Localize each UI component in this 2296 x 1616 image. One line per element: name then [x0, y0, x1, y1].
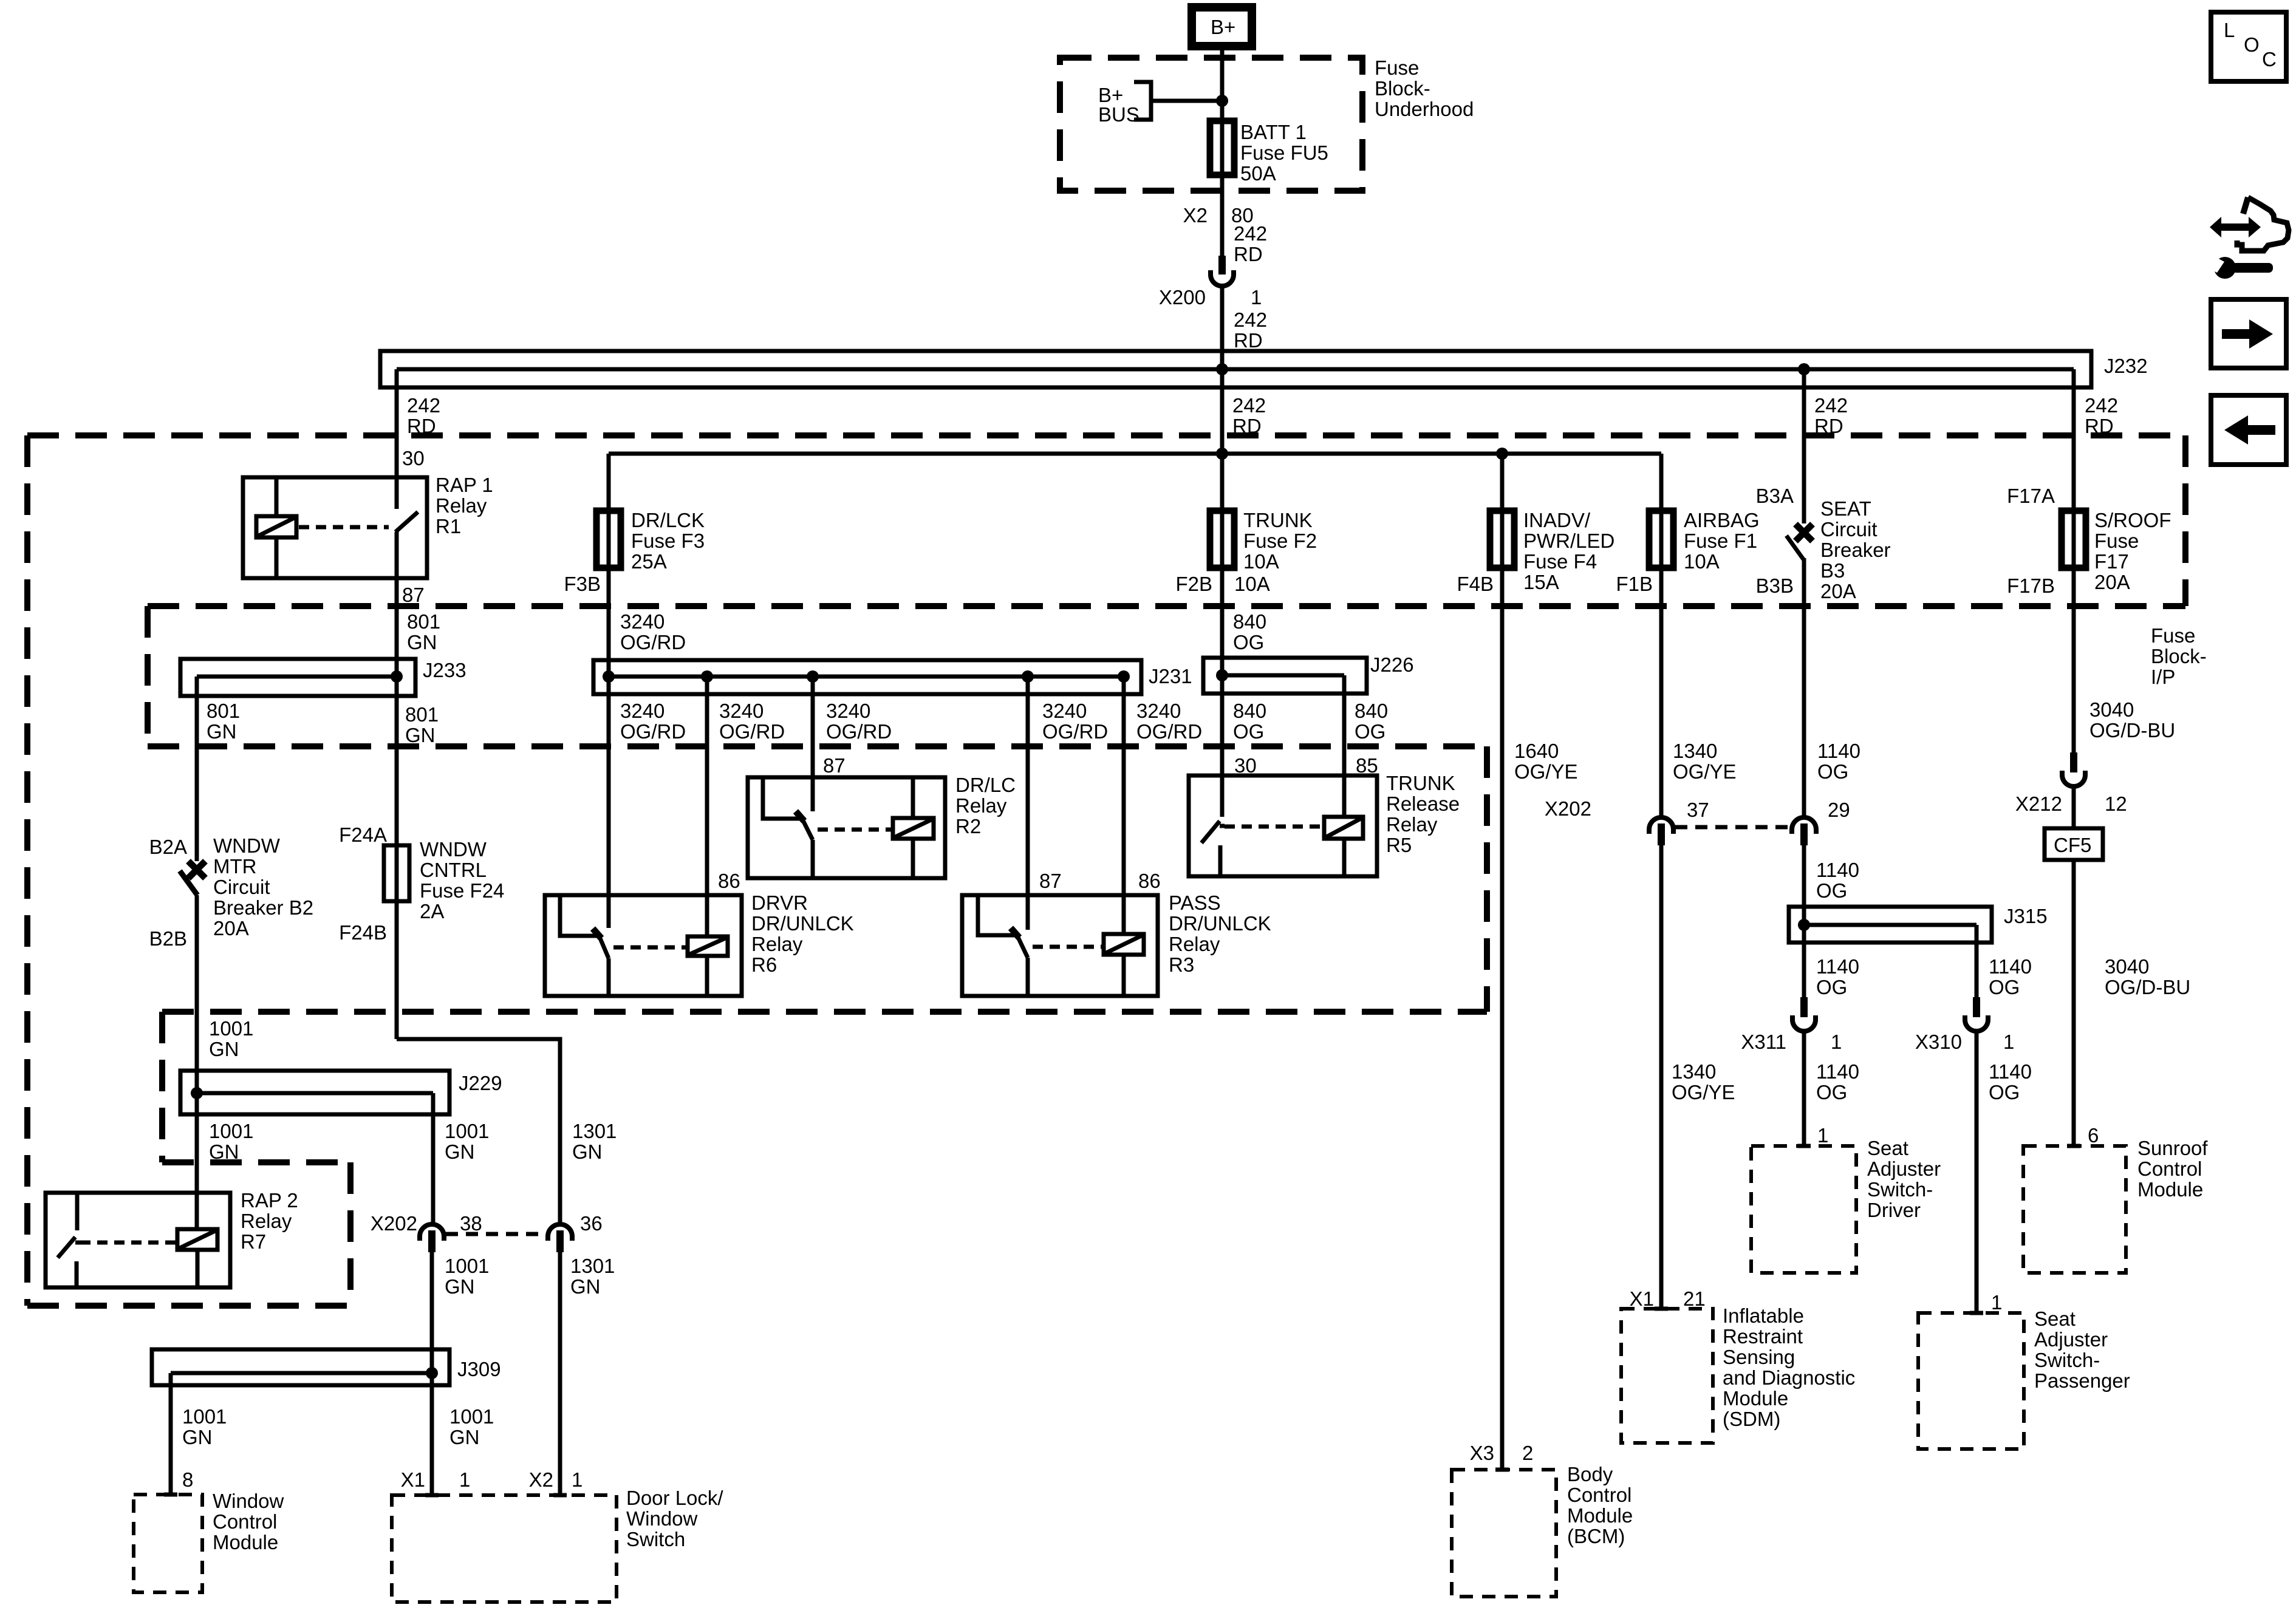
svg-text:PWR/LED: PWR/LED — [1523, 530, 1614, 552]
label INADV/PWR/LED Fuse F4 15A — [1523, 509, 1614, 593]
svg-text:Module: Module — [2137, 1178, 2203, 1201]
wire feeder to F3 — [607, 454, 611, 511]
terminal tick SDM — [1655, 1307, 1668, 1311]
svg-text:25A: 25A — [631, 550, 667, 573]
wire F17 to X212 — [2072, 511, 2076, 752]
svg-text:F17: F17 — [2094, 550, 2129, 573]
label X3 pin 2 BCM — [1470, 1442, 1534, 1464]
terminal tick seat passenger — [1970, 1311, 1983, 1315]
label 242 RD center column — [1232, 394, 1266, 437]
svg-text:3240: 3240 — [1042, 700, 1087, 722]
label 801 GN above J233 — [407, 610, 440, 653]
relay R2 DR/LC box — [748, 777, 945, 878]
label WNDW MTR Circuit Breaker B2 20A — [213, 834, 313, 939]
label 1001 GN below J229 left — [209, 1120, 253, 1163]
relay R6 switch — [560, 895, 609, 996]
wire X202 29 to J315 and X311 — [1802, 845, 1806, 997]
svg-text:Fuse F2: Fuse F2 — [1243, 530, 1317, 552]
wire F1 to X202 pin 37 — [1659, 511, 1664, 817]
svg-text:X310: X310 — [1915, 1031, 1962, 1053]
wire bus to B3A breaker — [1802, 369, 1806, 523]
label SEAT Circuit Breaker B3 20A — [1820, 497, 1891, 602]
svg-text:Block-: Block- — [2151, 645, 2207, 667]
svg-text:86: 86 — [1138, 870, 1161, 892]
label 1140 OG above J315 — [1816, 859, 1859, 902]
svg-text:J232: J232 — [2104, 355, 2148, 377]
label 3040 OG/D-BU — [2089, 698, 2175, 742]
svg-text:GN: GN — [445, 1140, 475, 1163]
svg-text:X3: X3 — [1470, 1442, 1494, 1464]
splice pack J309 — [152, 1349, 501, 1385]
wire X202 38 to J309 and door switch — [430, 1252, 434, 1495]
fuse FU5 BATT 1 50A — [1210, 121, 1234, 175]
wire bus to F17A — [2072, 369, 2076, 511]
svg-text:Release: Release — [1386, 793, 1460, 815]
wire FU5 to X200 — [1220, 175, 1225, 256]
svg-text:21: 21 — [1683, 1287, 1706, 1310]
icon LOC box — [2211, 12, 2286, 81]
svg-text:10A: 10A — [1243, 550, 1279, 573]
bus J232 inner conductor — [397, 367, 2074, 372]
svg-text:R6: R6 — [751, 953, 777, 976]
B+ terminal — [1192, 7, 1252, 46]
svg-text:OG: OG — [1355, 720, 1385, 743]
svg-text:801: 801 — [405, 703, 439, 726]
svg-text:OG: OG — [1816, 1081, 1847, 1103]
label DRVR DR/UNLCK Relay R6 — [751, 892, 854, 976]
svg-text:OG/RD: OG/RD — [826, 720, 892, 743]
connector X310 pin 1 — [1915, 997, 2014, 1053]
label S/ROOF Fuse F17 20A — [2094, 509, 2171, 593]
label 840 OG col1 — [1233, 700, 1266, 743]
wire B3 to X202 pin 29 — [1802, 558, 1806, 817]
wire feeder to F4 — [1500, 454, 1505, 511]
svg-text:(SDM): (SDM) — [1723, 1408, 1780, 1430]
svg-text:F1B: F1B — [1616, 573, 1653, 595]
svg-text:1001: 1001 — [209, 1120, 253, 1142]
svg-text:840: 840 — [1233, 610, 1266, 633]
svg-text:C: C — [2262, 48, 2277, 70]
terminal tick window control module — [164, 1493, 177, 1497]
svg-text:GN: GN — [449, 1426, 480, 1448]
svg-text:I/P: I/P — [2151, 666, 2175, 688]
svg-text:15A: 15A — [1523, 571, 1559, 593]
svg-text:242: 242 — [1234, 309, 1267, 331]
svg-text:20A: 20A — [2094, 571, 2130, 593]
svg-text:Adjuster: Adjuster — [2034, 1328, 2108, 1351]
svg-text:OG/RD: OG/RD — [719, 720, 785, 743]
fuse F1 AIRBAG — [1649, 511, 1673, 568]
label 840 OG above J226 — [1233, 610, 1266, 653]
svg-text:Breaker: Breaker — [1820, 539, 1891, 561]
fuse block underhood dashed box — [1060, 58, 1362, 191]
wire feeder to F1 — [1659, 454, 1664, 511]
svg-text:AIRBAG: AIRBAG — [1684, 509, 1760, 531]
svg-text:GN: GN — [209, 1038, 239, 1060]
svg-text:OG/RD: OG/RD — [1042, 720, 1108, 743]
svg-text:WNDW: WNDW — [420, 838, 487, 861]
svg-text:Adjuster: Adjuster — [1867, 1157, 1941, 1180]
label TRUNK Fuse F2 10A — [1243, 509, 1317, 573]
terminal tick seat driver — [1797, 1144, 1811, 1148]
B+ BUS terminal — [1098, 82, 1151, 126]
svg-text:S/ROOF: S/ROOF — [2094, 509, 2171, 531]
wire J233 left branch 801 GN — [195, 677, 199, 861]
svg-text:6: 6 — [2088, 1124, 2099, 1147]
relay R3 PASS box — [962, 895, 1158, 996]
svg-text:X202: X202 — [371, 1212, 417, 1235]
svg-text:Fuse F3: Fuse F3 — [631, 530, 705, 552]
svg-text:X212: X212 — [2015, 793, 2062, 815]
relay R1 switch — [395, 477, 418, 578]
relay R7 RAP 2 box — [46, 1193, 230, 1287]
svg-text:X311: X311 — [1741, 1031, 1786, 1053]
inline fuse CF5 — [2045, 828, 2103, 860]
svg-text:RAP 2: RAP 2 — [241, 1189, 298, 1212]
label 3240 OG/RD col2 — [719, 700, 785, 743]
wire F24B to X202 pin 36 — [397, 1039, 560, 1224]
label 1001 GN below X202 38 — [445, 1255, 489, 1298]
svg-text:Relay: Relay — [751, 933, 803, 955]
dashed boundary fuse block IP left — [145, 606, 151, 746]
relay R6 actuation dashed link — [613, 946, 688, 950]
svg-text:PASS: PASS — [1169, 892, 1221, 914]
dashed boundary right edge — [2182, 435, 2188, 606]
relay R2 switch — [763, 777, 813, 878]
label 242 RD seat column — [1814, 394, 1848, 437]
label Window Control Module — [213, 1490, 284, 1553]
svg-text:J233: J233 — [423, 659, 466, 681]
label Door Lock Window Switch — [626, 1487, 723, 1550]
svg-text:X2: X2 — [1183, 204, 1208, 227]
label Fuse Block-I/P — [2151, 624, 2207, 688]
terminal tick door switch X2 — [553, 1493, 567, 1498]
wire F4 to BCM — [1500, 511, 1505, 1470]
connector X200 pin 1 — [1159, 256, 1262, 309]
node bus to B3 column — [1798, 363, 1810, 375]
svg-text:Door Lock/: Door Lock/ — [626, 1487, 723, 1509]
svg-text:Fuse: Fuse — [2151, 624, 2195, 647]
wire J229 right branch to X202 pin 38 — [431, 1093, 436, 1224]
svg-text:1: 1 — [1831, 1031, 1842, 1053]
svg-text:10A: 10A — [1684, 550, 1720, 573]
svg-text:BATT 1: BATT 1 — [1240, 121, 1307, 143]
svg-text:38: 38 — [460, 1212, 482, 1235]
label BATT 1 Fuse FU5 50A — [1240, 121, 1328, 185]
wire X212 to CF5 — [2072, 786, 2076, 828]
svg-text:OG/RD: OG/RD — [620, 720, 686, 743]
svg-text:1: 1 — [1251, 286, 1262, 309]
svg-text:O: O — [2244, 33, 2260, 56]
svg-text:Driver: Driver — [1867, 1199, 1921, 1221]
svg-text:GN: GN — [207, 720, 237, 743]
svg-text:Sensing: Sensing — [1723, 1346, 1795, 1368]
label 1001 GN below J309 right — [449, 1405, 494, 1448]
module box Seat Adjuster Switch-Passenger — [1918, 1313, 2024, 1449]
svg-text:Restraint: Restraint — [1723, 1325, 1803, 1348]
svg-text:242: 242 — [2085, 394, 2118, 417]
svg-text:3040: 3040 — [2105, 955, 2149, 978]
connector X202 pin 37 — [1545, 797, 1709, 845]
label DR/LCK Fuse F3 25A — [631, 509, 705, 573]
wire F2 to J226 and R5 — [1220, 511, 1225, 817]
svg-text:OG/D-BU: OG/D-BU — [2089, 719, 2175, 742]
svg-text:1140: 1140 — [1816, 859, 1859, 881]
svg-text:GN: GN — [405, 724, 436, 746]
svg-text:Relay: Relay — [436, 494, 487, 517]
label 840 OG col2 — [1355, 700, 1388, 743]
label DR/LC Relay R2 — [955, 774, 1016, 837]
label 1301 GN below X202 36 — [570, 1255, 615, 1298]
label AIRBAG Fuse F1 10A — [1684, 509, 1760, 573]
relay R6 coil — [688, 936, 728, 996]
relay R3 coil — [1104, 934, 1144, 996]
dashed boundary relay row bottom — [162, 1009, 1487, 1015]
wire bus to RAP1 pin 30 — [395, 369, 399, 477]
svg-text:10A: 10A — [1234, 573, 1270, 595]
svg-text:87: 87 — [402, 584, 425, 606]
svg-text:50A: 50A — [1240, 162, 1276, 185]
label 1140 OG below J315 right — [1989, 955, 2032, 998]
svg-text:WNDW: WNDW — [213, 834, 281, 857]
module box BCM — [1452, 1470, 1556, 1597]
label 3240 OG/RD col1 — [620, 700, 686, 743]
label Fuse Block-Underhood — [1375, 56, 1474, 120]
svg-text:OG: OG — [1233, 631, 1264, 653]
svg-text:Sunroof: Sunroof — [2137, 1137, 2208, 1159]
svg-text:OG: OG — [1817, 760, 1848, 783]
icon diagnostic connector arrow — [2210, 197, 2289, 251]
module box SDM — [1621, 1309, 1713, 1443]
label 3040 OG/D-BU lower — [2105, 955, 2190, 998]
dashed boundary inner left vertical — [159, 1012, 165, 1162]
label 1340 OG/YE — [1673, 740, 1737, 783]
svg-text:TRUNK: TRUNK — [1243, 509, 1313, 531]
svg-text:2: 2 — [1522, 1442, 1533, 1464]
svg-text:J231: J231 — [1149, 665, 1192, 687]
module box Seat Adjuster Switch-Driver — [1751, 1146, 1856, 1273]
dashed connector line X202 37-29 — [1675, 825, 1789, 830]
svg-text:B2B: B2B — [149, 927, 187, 950]
svg-text:2A: 2A — [420, 900, 444, 922]
relay R7 coil — [177, 1229, 217, 1287]
svg-text:R1: R1 — [436, 515, 461, 537]
relay R3 actuation dashed link — [1033, 945, 1104, 949]
dashed connector line X202 38-36 — [446, 1232, 545, 1236]
label 801 GN right below J233 — [405, 703, 439, 746]
svg-text:1001: 1001 — [209, 1017, 253, 1040]
svg-text:OG: OG — [1816, 879, 1847, 902]
svg-text:Fuse F1: Fuse F1 — [1684, 530, 1757, 552]
svg-text:242: 242 — [1814, 394, 1848, 417]
label 1140 OG — [1817, 740, 1860, 783]
relay R5 actuation dashed link — [1225, 825, 1324, 829]
label 1140 OG below J315 left — [1816, 955, 1859, 998]
label 3240 OG/RD col4 — [1042, 700, 1108, 743]
svg-text:F17B: F17B — [2007, 574, 2055, 597]
svg-text:F4B: F4B — [1457, 573, 1494, 595]
svg-text:X2: X2 — [529, 1468, 553, 1491]
svg-text:Fuse F24: Fuse F24 — [420, 879, 504, 902]
svg-text:L: L — [2224, 19, 2235, 41]
relay R5 coil — [1324, 817, 1363, 876]
wire X311 to seat driver switch — [1802, 1031, 1806, 1146]
svg-text:R2: R2 — [955, 815, 981, 837]
label 801 GN left below J233 — [207, 700, 240, 743]
splice pack J226 — [1203, 653, 1414, 694]
fuse F3 DR/LCK — [596, 511, 621, 568]
dashed boundary fuse block IP top — [148, 603, 2185, 609]
icon wrench — [2204, 253, 2273, 279]
relay R7 actuation dashed link — [80, 1241, 177, 1245]
splice pack J229 — [180, 1071, 502, 1114]
svg-text:Block-: Block- — [1375, 77, 1430, 100]
node B+ bus junction — [1216, 95, 1228, 107]
svg-text:20A: 20A — [213, 917, 249, 939]
icon arrow left box — [2211, 395, 2286, 465]
breaker B2 WNDW MTR — [180, 861, 205, 895]
label 1140 OG passenger col — [1989, 1060, 2032, 1103]
bus J232 outer rectangle — [380, 351, 2091, 387]
label PASS DR/UNLCK Relay R3 — [1169, 892, 1271, 976]
svg-text:840: 840 — [1355, 700, 1388, 722]
svg-text:GN: GN — [182, 1426, 213, 1448]
svg-text:F3B: F3B — [564, 573, 601, 595]
svg-text:242: 242 — [1234, 222, 1267, 245]
svg-text:GN: GN — [407, 631, 437, 653]
svg-text:1140: 1140 — [1989, 1060, 2032, 1083]
svg-text:(BCM): (BCM) — [1567, 1525, 1625, 1547]
svg-text:36: 36 — [580, 1212, 603, 1235]
label 1001 GN below J309 left — [182, 1405, 227, 1448]
dashed boundary left edge — [24, 435, 30, 1306]
svg-text:B+: B+ — [1211, 16, 1235, 38]
svg-text:Module: Module — [1567, 1504, 1633, 1527]
svg-text:1001: 1001 — [445, 1255, 489, 1277]
label 3240 OG/RD col3 — [826, 700, 892, 743]
svg-text:3240: 3240 — [719, 700, 764, 722]
svg-text:242: 242 — [1232, 394, 1266, 417]
fuse F24 WNDW CNTRL — [384, 845, 409, 901]
svg-text:37: 37 — [1687, 799, 1709, 821]
splice pack J231 — [593, 660, 1192, 694]
label X1 pin 21 SDM — [1630, 1287, 1706, 1310]
svg-text:DR/LCK: DR/LCK — [631, 509, 705, 531]
wire B+ BUS to main — [1151, 99, 1222, 103]
svg-text:Passenger: Passenger — [2034, 1369, 2130, 1392]
label 1640 OG/YE — [1514, 740, 1578, 783]
svg-text:242: 242 — [407, 394, 440, 417]
svg-text:1640: 1640 — [1514, 740, 1559, 762]
svg-text:1: 1 — [459, 1468, 470, 1491]
label X2 pin 80 — [1183, 204, 1254, 227]
svg-text:TRUNK: TRUNK — [1386, 772, 1455, 794]
svg-text:3240: 3240 — [826, 700, 870, 722]
label 1001 GN above J229 — [209, 1017, 253, 1060]
svg-text:Module: Module — [1723, 1387, 1788, 1410]
svg-text:30: 30 — [1234, 754, 1257, 777]
svg-text:F24A: F24A — [339, 823, 387, 846]
svg-text:1140: 1140 — [1816, 955, 1859, 978]
relay R1 RAP 1 box — [243, 477, 427, 578]
svg-text:1001: 1001 — [449, 1405, 494, 1428]
svg-text:Circuit: Circuit — [213, 876, 270, 898]
svg-text:Relay: Relay — [955, 794, 1007, 817]
svg-text:Seat: Seat — [1867, 1137, 1908, 1159]
relay R2 coil — [893, 777, 934, 878]
svg-text:and Diagnostic: and Diagnostic — [1723, 1366, 1855, 1389]
label WNDW CNTRL Fuse F24 2A — [420, 838, 504, 922]
svg-text:801: 801 — [207, 700, 240, 722]
svg-text:1140: 1140 — [1816, 1060, 1859, 1083]
svg-text:Switch-: Switch- — [1867, 1178, 1933, 1201]
dashed boundary relay row right vertical — [1484, 746, 1490, 1012]
svg-text:86: 86 — [718, 870, 740, 892]
wire J231 to R6 coil — [705, 677, 709, 936]
label Seat Adjuster Switch-Passenger — [2034, 1307, 2130, 1392]
relay R5 switch — [1201, 821, 1225, 876]
svg-text:INADV/: INADV/ — [1523, 509, 1591, 531]
svg-text:BUS: BUS — [1098, 103, 1139, 126]
svg-text:Relay: Relay — [241, 1210, 292, 1232]
relay R2 actuation dashed link — [818, 828, 893, 832]
wire J226 to R5 coil pin 85 — [1342, 675, 1347, 817]
svg-text:840: 840 — [1233, 700, 1266, 722]
relay R3 switch — [978, 895, 1028, 996]
svg-text:87: 87 — [1039, 870, 1062, 892]
svg-text:85: 85 — [1356, 754, 1378, 777]
svg-text:1001: 1001 — [182, 1405, 227, 1428]
relay R1 actuation dashed link — [299, 525, 389, 530]
terminal tick BCM — [1495, 1468, 1509, 1472]
svg-text:1: 1 — [572, 1468, 583, 1491]
svg-text:Fuse: Fuse — [1375, 56, 1419, 79]
svg-text:Relay: Relay — [1386, 813, 1438, 836]
label 242 RD RAP column — [407, 394, 440, 437]
svg-text:1140: 1140 — [1989, 955, 2032, 978]
svg-text:X202: X202 — [1545, 797, 1591, 820]
svg-text:GN: GN — [570, 1275, 601, 1298]
svg-text:1340: 1340 — [1672, 1060, 1716, 1083]
svg-text:R7: R7 — [241, 1230, 266, 1253]
connector X202 pin 29 — [1792, 799, 1850, 845]
wire J231 to R3 coil — [1122, 677, 1126, 934]
svg-text:OG/YE: OG/YE — [1673, 760, 1737, 783]
label 1001 GN below J229 right — [445, 1120, 489, 1163]
svg-text:30: 30 — [402, 447, 425, 469]
svg-text:F2B: F2B — [1175, 573, 1212, 595]
svg-text:Control: Control — [1567, 1484, 1631, 1506]
wire B+ to fuse FU5 — [1220, 49, 1225, 175]
svg-text:GN: GN — [209, 1140, 239, 1163]
svg-text:Switch-: Switch- — [2034, 1349, 2100, 1371]
svg-text:8: 8 — [182, 1468, 193, 1491]
label Sunroof Control Module — [2137, 1137, 2208, 1201]
relay R7 switch — [58, 1193, 80, 1287]
wire X202 37 to SDM — [1659, 845, 1664, 1309]
svg-text:CNTRL: CNTRL — [420, 859, 487, 881]
label Seat Adjuster Switch-Driver — [1867, 1137, 1941, 1221]
svg-text:20A: 20A — [1820, 580, 1856, 602]
wire CF5 to sunroof module — [2072, 860, 2076, 1146]
svg-text:3240: 3240 — [620, 610, 665, 633]
svg-text:1140: 1140 — [1817, 740, 1860, 762]
module box Sunroof Control Module — [2023, 1146, 2126, 1273]
svg-text:Circuit: Circuit — [1820, 518, 1877, 540]
label RAP 1 Relay R1 — [436, 474, 493, 537]
svg-text:MTR: MTR — [213, 855, 256, 878]
wire X200 to bus J232 — [1220, 286, 1225, 511]
